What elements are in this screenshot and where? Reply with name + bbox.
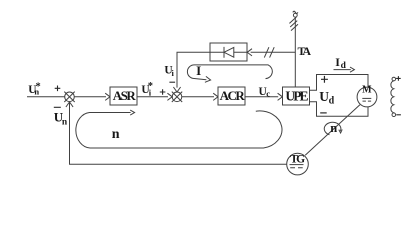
wire junction2 to ACR: [182, 93, 218, 100]
label minus at junction1: [54, 106, 61, 108]
wire ACR to UPE with Uc: [245, 93, 282, 100]
label Ui current feedback: [164, 64, 174, 78]
wire current sense TA to rectifier box: [247, 49, 295, 56]
svg-text:d: d: [341, 61, 347, 71]
block ACR: [218, 87, 245, 105]
wire ASR to summing junction 2: [137, 93, 172, 100]
block ASR: [110, 87, 137, 105]
label plus at junction1: [55, 86, 61, 92]
svg-text:I: I: [196, 63, 201, 78]
label minus armature: [320, 112, 327, 114]
field winding inductor: [391, 77, 396, 116]
svg-text:n: n: [112, 127, 120, 142]
speed loop indicator n: [76, 110, 282, 148]
Id current arrow: [334, 67, 355, 72]
svg-text:TG: TG: [290, 154, 305, 166]
tachogenerator TG: [287, 153, 309, 175]
diode D: [224, 47, 234, 58]
label Uc: [259, 86, 271, 99]
svg-text:ACR: ACR: [220, 88, 246, 103]
svg-text:n: n: [62, 117, 68, 127]
wire rectifier box to junction2: [173, 52, 210, 92]
label minus field: [396, 114, 401, 116]
label Ud: [319, 89, 334, 106]
label minus at junction2: [169, 81, 175, 83]
svg-text:d: d: [329, 95, 335, 106]
block UPE: [283, 87, 310, 105]
svg-text:i: i: [172, 68, 175, 78]
wire TA vertical line supply to UPE: [294, 17, 296, 87]
wire UPE negative output to motor: [310, 102, 369, 116]
svg-text:n: n: [330, 121, 337, 135]
wire speed feedback TG to junction1: [66, 102, 287, 164]
svg-text:I: I: [335, 55, 340, 69]
motor M: [357, 87, 377, 107]
svg-text:c: c: [266, 89, 270, 99]
svg-text:UPE: UPE: [285, 88, 308, 103]
svg-text:TA: TA: [298, 44, 312, 58]
svg-text:*: *: [148, 81, 153, 92]
label plus at junction2: [160, 89, 166, 95]
summing junction 1: [64, 92, 74, 102]
svg-text:*: *: [36, 81, 41, 92]
label plus armature: [321, 76, 328, 83]
svg-text:ASR: ASR: [113, 88, 137, 103]
label Un* reference input: [28, 81, 40, 96]
rotation arrow around n: [324, 122, 342, 135]
double slash multi-conductor mark: [264, 47, 274, 57]
current transducer rectifier box: [210, 43, 247, 61]
wire UPE positive output to motor: [310, 75, 369, 91]
label plus field: [396, 76, 401, 81]
motor shaft to TG: [305, 105, 360, 156]
summing junction 2: [172, 92, 182, 102]
wire input Un* to summing junction 1: [27, 96, 65, 98]
svg-text:M: M: [362, 85, 372, 96]
label Id: [335, 55, 346, 71]
AC supply symbol: [289, 11, 298, 30]
wire junction1 to ASR: [74, 93, 110, 100]
label Ui*: [141, 81, 153, 97]
current loop indicator I: [187, 65, 272, 82]
label Un speed feedback: [54, 110, 68, 128]
